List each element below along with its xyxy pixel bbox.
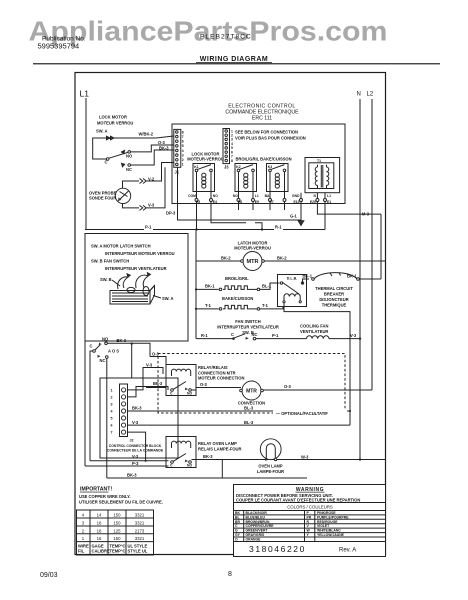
svg-text:150: 150 [113, 536, 121, 541]
svg-text:L2: L2 [367, 92, 374, 98]
svg-text:ORANGE: ORANGE [246, 538, 262, 542]
svg-text:V-3: V-3 [148, 202, 155, 207]
svg-text:PLEB27T8CC: PLEB27T8CC [200, 34, 252, 41]
svg-text:PURPLE/POURPRE: PURPLE/POURPRE [317, 515, 349, 519]
svg-text:NO: NO [187, 463, 192, 467]
svg-text:NC: NC [126, 167, 132, 172]
svg-text:N: N [313, 194, 316, 198]
svg-text:E4: E4 [213, 200, 217, 204]
svg-text:MOTEUR-VERROU: MOTEUR-VERROU [234, 246, 271, 251]
svg-text:BK-2: BK-2 [221, 256, 231, 261]
svg-text:V-3: V-3 [132, 454, 139, 459]
svg-text:ERC 111: ERC 111 [252, 116, 272, 122]
svg-text:3321: 3321 [135, 536, 145, 541]
svg-text:1: 1 [182, 163, 184, 167]
svg-text:WHITE/BLANC: WHITE/BLANC [317, 529, 341, 533]
svg-text:BK-1: BK-1 [347, 273, 357, 278]
svg-text:INTERRUPTEUR VENTILATEUR: INTERRUPTEUR VENTILATEUR [105, 266, 167, 271]
svg-text:OVEN LAMP: OVEN LAMP [258, 463, 283, 468]
svg-text:6: 6 [182, 140, 184, 144]
svg-text:CONNECTEUR DE LA COMMANDE: CONNECTEUR DE LA COMMANDE [107, 448, 164, 452]
svg-text:BL-3: BL-3 [244, 406, 254, 411]
svg-text:BAKE/CUISSON: BAKE/CUISSON [222, 296, 253, 301]
svg-text:N: N [357, 92, 361, 98]
svg-text:BL-1: BL-1 [262, 284, 272, 289]
svg-text:LOCK MOTOR: LOCK MOTOR [99, 115, 127, 120]
svg-text:2: 2 [82, 528, 85, 533]
svg-text:C: C [170, 463, 173, 467]
svg-text:O: O [235, 538, 238, 542]
svg-text:MTR: MTR [246, 389, 257, 395]
svg-text:R-1: R-1 [275, 224, 282, 229]
svg-text:CONNECTION MTR: CONNECTION MTR [198, 370, 236, 375]
svg-text:CONTROL CONNECTOR BLOCK: CONTROL CONNECTOR BLOCK [109, 444, 162, 448]
svg-text:P-1: P-1 [272, 333, 279, 338]
svg-text:DP-3: DP-3 [166, 211, 176, 216]
svg-text:C: C [105, 160, 108, 165]
svg-text:SEE BELOW FOR CONNECTION: SEE BELOW FOR CONNECTION [235, 130, 298, 135]
svg-text:E20: E20 [310, 200, 316, 204]
svg-text:BLACK/NOIR: BLACK/NOIR [246, 511, 268, 515]
svg-text:L1: L1 [255, 194, 259, 198]
svg-text:COUPER LE COURANT AVANT D'EFFE: COUPER LE COURANT AVANT D'EFFECTUER UNE … [236, 497, 360, 502]
svg-text:SW. B FAN SWITCH: SW. B FAN SWITCH [91, 259, 129, 264]
svg-text:RELAIS LAMPE-FOUR: RELAIS LAMPE-FOUR [198, 446, 241, 451]
svg-text:BA: BA [265, 194, 270, 198]
svg-text:COPPER/CUIVRE: COPPER/CUIVRE [246, 524, 275, 528]
svg-text:CONVECTION: CONVECTION [238, 401, 265, 406]
svg-text:USE COPPER WIRE ONLY.: USE COPPER WIRE ONLY. [79, 494, 131, 499]
svg-text:4: 4 [82, 513, 85, 518]
svg-text:J2: J2 [130, 439, 134, 443]
svg-text:3321: 3321 [135, 513, 145, 518]
svg-text:BLUE/BLEU: BLUE/BLEU [246, 515, 266, 519]
svg-text:C: C [170, 391, 173, 395]
svg-text:INTERRUPTEUR MOTEUR VERROU: INTERRUPTEUR MOTEUR VERROU [105, 251, 175, 256]
svg-text:BROIL/GRIL BAKE/CUISSON: BROIL/GRIL BAKE/CUISSON [235, 157, 291, 162]
svg-text:1: 1 [111, 388, 113, 392]
svg-text:COM: COM [188, 194, 196, 198]
svg-text:RED/ROUGE: RED/ROUGE [317, 520, 338, 524]
svg-text:318046220: 318046220 [249, 544, 306, 554]
svg-text:E9: E9 [255, 200, 259, 204]
svg-text:WIRING DIAGRAM: WIRING DIAGRAM [200, 56, 268, 63]
svg-text:BK-3: BK-3 [117, 338, 127, 343]
svg-text:C: C [90, 344, 93, 349]
svg-text:BK-3: BK-3 [127, 473, 137, 478]
svg-text:O-3: O-3 [158, 140, 166, 145]
svg-text:Rev. A: Rev. A [339, 548, 356, 554]
svg-text:IMPORTANT!: IMPORTANT! [80, 487, 112, 493]
svg-text:GREEN/VERT: GREEN/VERT [246, 529, 269, 533]
svg-text:SW. A MOTOR LATCH SWITCH: SW. A MOTOR LATCH SWITCH [91, 244, 151, 249]
svg-text:K2: K2 [236, 165, 240, 169]
svg-text:NO: NO [213, 194, 218, 198]
svg-text:MTR: MTR [246, 259, 258, 265]
svg-text:D.L.B.: D.L.B. [287, 277, 297, 281]
svg-text:BK-3: BK-3 [159, 146, 169, 151]
svg-text:18: 18 [97, 521, 102, 526]
svg-text:RELAY/RELAIS: RELAY/RELAIS [198, 365, 228, 370]
svg-text:SW. B: SW. B [100, 277, 112, 282]
svg-text:E10: E10 [293, 200, 299, 204]
svg-text:R-1: R-1 [201, 333, 208, 338]
svg-text:TEMP°C: TEMP°C [110, 549, 126, 554]
svg-text:INTERRUPTEUR VENTILATEUR: INTERRUPTEUR VENTILATEUR [217, 324, 279, 329]
svg-text:E1: E1 [327, 200, 331, 204]
svg-text:4: 4 [182, 149, 184, 153]
svg-text:FAN SWITCH: FAN SWITCH [235, 319, 261, 324]
svg-text:K1: K1 [194, 165, 198, 169]
svg-text:150: 150 [113, 521, 121, 526]
svg-text:YELLOW/JAUNE: YELLOW/JAUNE [317, 533, 345, 537]
svg-text:3: 3 [82, 521, 85, 526]
svg-text:8: 8 [231, 159, 233, 163]
svg-text:P-1: P-1 [145, 224, 152, 229]
svg-text:CALIBRE: CALIBRE [92, 549, 110, 554]
svg-text:L1: L1 [80, 89, 90, 99]
svg-text:3: 3 [111, 402, 113, 406]
svg-text:BK-3: BK-3 [132, 406, 142, 411]
svg-text:VIOLET: VIOLET [317, 524, 330, 528]
svg-text:THERMIQUE: THERMIQUE [322, 303, 347, 308]
svg-text:3321: 3321 [135, 521, 145, 526]
svg-text:2: 2 [111, 395, 113, 399]
svg-text:125: 125 [113, 528, 121, 533]
svg-text:PINK/ROSE: PINK/ROSE [317, 511, 336, 515]
svg-text:— OPTIONAL/FACULTATIF: — OPTIONAL/FACULTATIF [276, 411, 328, 416]
svg-text:09/03: 09/03 [40, 572, 58, 579]
svg-text:BL-3: BL-3 [244, 420, 254, 425]
svg-text:THERMAL CIRCUIT: THERMAL CIRCUIT [315, 286, 353, 291]
svg-text:3: 3 [182, 153, 184, 157]
svg-text:O-3: O-3 [284, 384, 292, 389]
svg-text:LAMPE-FOUR: LAMPE-FOUR [257, 469, 284, 474]
svg-text:MOTEUR-VERROU: MOTEUR-VERROU [187, 157, 224, 162]
svg-text:COOLING FAN: COOLING FAN [300, 324, 328, 329]
svg-text:T1: T1 [317, 159, 321, 163]
svg-text:BK: BK [235, 511, 240, 515]
svg-text:V-3: V-3 [350, 333, 357, 338]
svg-text:14: 14 [97, 513, 102, 518]
svg-text:RELAY OVEN LAMP: RELAY OVEN LAMP [198, 441, 237, 446]
svg-text:6: 6 [111, 424, 113, 428]
svg-text:18: 18 [97, 528, 102, 533]
svg-text:BK-1: BK-1 [302, 273, 312, 278]
svg-text:T-1: T-1 [262, 303, 269, 308]
svg-text:7: 7 [111, 431, 113, 435]
svg-text:NO: NO [126, 154, 133, 159]
svg-text:FIL: FIL [78, 549, 85, 554]
svg-text:BROIL/GRIL: BROIL/GRIL [225, 276, 249, 281]
svg-text:DISJONCTEUR: DISJONCTEUR [319, 297, 348, 302]
svg-text:VOIR PLUS BAS POUR CONNEXION: VOIR PLUS BAS POUR CONNEXION [235, 136, 306, 141]
svg-text:V-3: V-3 [132, 420, 139, 425]
svg-text:M-3: M-3 [362, 212, 370, 217]
svg-text:BK-2: BK-2 [277, 256, 287, 261]
svg-text:5: 5 [182, 144, 184, 148]
svg-text:O-3: O-3 [200, 382, 208, 387]
svg-text:PR: PR [307, 515, 312, 519]
svg-text:5: 5 [111, 417, 113, 421]
svg-text:NO: NO [187, 391, 192, 395]
svg-text:V-2: V-2 [148, 176, 155, 181]
svg-text:SW. A: SW. A [162, 296, 173, 301]
svg-text:V-3: V-3 [146, 362, 153, 367]
svg-text:4: 4 [111, 410, 113, 414]
svg-text:MOTEUR CONNECTION: MOTEUR CONNECTION [198, 376, 244, 381]
svg-text:T-1: T-1 [205, 303, 212, 308]
svg-text:NO: NO [102, 336, 109, 341]
svg-text:5995395794: 5995395794 [38, 42, 80, 51]
svg-text:G-1: G-1 [290, 214, 298, 219]
svg-text:L1: L1 [327, 194, 331, 198]
svg-text:W/BK-2: W/BK-2 [139, 132, 154, 137]
svg-text:2173: 2173 [135, 528, 145, 533]
svg-text:BL: BL [235, 515, 240, 519]
svg-text:STYLE UL: STYLE UL [128, 549, 148, 554]
svg-text:G: G [235, 529, 238, 533]
svg-text:J3: J3 [224, 165, 229, 170]
svg-text:A O S: A O S [108, 349, 119, 354]
svg-text:GY: GY [235, 533, 241, 537]
svg-text:GND: GND [292, 194, 300, 198]
svg-text:BK-3: BK-3 [203, 454, 213, 459]
svg-text:C: C [231, 332, 234, 337]
svg-text:BREAKER: BREAKER [324, 292, 344, 297]
svg-text:NC: NC [100, 358, 106, 363]
svg-text:COLORS / COULEURS: COLORS / COULEURS [287, 505, 333, 510]
svg-text:W-3: W-3 [301, 454, 309, 459]
svg-text:BROWN/BRUN: BROWN/BRUN [246, 520, 270, 524]
svg-text:2: 2 [182, 158, 184, 162]
svg-text:NC: NC [252, 332, 258, 337]
svg-text:NO: NO [233, 194, 238, 198]
svg-text:8: 8 [228, 571, 232, 578]
svg-text:MOTEUR VERROU: MOTEUR VERROU [97, 121, 133, 126]
svg-text:BR: BR [235, 520, 240, 524]
svg-text:8: 8 [182, 130, 184, 134]
svg-text:P-3: P-3 [132, 461, 139, 466]
svg-text:UTILISER SEULEMENT DU FIL DE C: UTILISER SEULEMENT DU FIL DE CUIVRE. [79, 500, 163, 505]
svg-text:VENTILATEUR: VENTILATEUR [300, 329, 328, 334]
svg-text:BK-1: BK-1 [205, 284, 215, 289]
svg-text:SONDE FOUR: SONDE FOUR [89, 196, 116, 201]
svg-text:150: 150 [113, 513, 121, 518]
svg-text:7: 7 [182, 135, 184, 139]
svg-text:16: 16 [97, 536, 102, 541]
svg-text:1: 1 [82, 536, 85, 541]
svg-text:SW. A: SW. A [96, 129, 107, 134]
svg-text:K3: K3 [268, 165, 272, 169]
svg-text:GRAY/GRIS: GRAY/GRIS [246, 533, 265, 537]
